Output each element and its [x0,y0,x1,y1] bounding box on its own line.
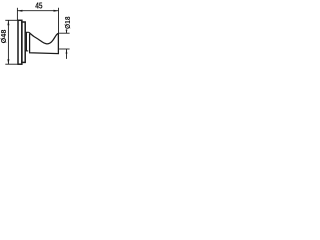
hook base bottom shoulder [25,50,28,52]
hook base top shoulder [25,31,29,33]
svg-text:45: 45 [35,1,43,10]
arrow top of O48 dim [7,20,9,25]
extension line top of O48 [5,19,17,21]
extension line top of O18 [59,32,70,34]
arrow up to O18 bottom [66,49,68,54]
arrow right of 45 dim [54,10,59,12]
knob front face [57,33,59,54]
extension line bottom of O48 [5,63,17,65]
dimension line O48 [7,20,9,64]
arrow down to O18 top [66,30,68,34]
wall flange rectangle [18,20,22,64]
extension line bottom of O18 [59,48,70,50]
O18 dim lower tail [66,49,68,59]
O18 dim upper tail [66,29,68,33]
svg-text:Ø48: Ø48 [0,30,8,44]
dimension line 45 [17,10,58,12]
arrow bottom of O48 dim [7,59,9,64]
cover collar rectangle [22,22,25,62]
hook base front edge [26,32,28,51]
svg-text:Ø18: Ø18 [63,16,72,29]
arrow left of 45 dim [17,10,22,12]
extension line right (knob face top) [58,8,60,33]
hook arm outline [29,32,59,53]
extension line left (wall top) [16,8,18,20]
